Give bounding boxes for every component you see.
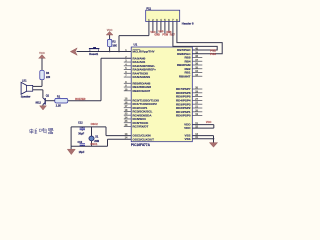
svg-text:Header 8: Header 8 (182, 21, 194, 25)
svg-text:VCC: VCC (107, 28, 113, 32)
svg-text:2.2K: 2.2K (56, 105, 61, 108)
svg-text:RD0/PSP0: RD0/PSP0 (176, 114, 191, 118)
svg-text:VCC: VCC (206, 120, 212, 124)
svg-text:10K: 10K (112, 45, 117, 48)
svg-text:VCC: VCC (39, 51, 45, 55)
svg-text:PGC: PGC (210, 52, 216, 56)
svg-text:PIC16F877A: PIC16F877A (131, 143, 151, 147)
svg-text:9012: 9012 (35, 102, 41, 105)
svg-text:OSC2: OSC2 (91, 122, 99, 126)
svg-text:C12: C12 (78, 121, 83, 124)
svg-text:220: 220 (46, 76, 51, 79)
svg-text:Speaker: Speaker (21, 95, 31, 98)
svg-text:GND: GND (154, 34, 160, 37)
svg-text:RC7/RX/DT: RC7/RX/DT (133, 125, 149, 129)
svg-text:Reset1: Reset1 (89, 52, 98, 56)
svg-text:U1: U1 (134, 42, 138, 46)
svg-text:RB0/INT: RB0/INT (179, 74, 191, 78)
svg-text:P11: P11 (146, 7, 151, 11)
svg-text:OSC1: OSC1 (90, 142, 98, 146)
svg-text:OSC2/CLKOUT: OSC2/CLKOUT (133, 137, 155, 141)
svg-text:30pF: 30pF (78, 132, 84, 135)
svg-text:MCLR/Vpp/THV: MCLR/Vpp/THV (133, 50, 155, 54)
svg-text:VSS: VSS (184, 137, 190, 141)
svg-text:BUZZER: BUZZER (75, 98, 85, 101)
svg-text:RE2/CS/AN7: RE2/CS/AN7 (133, 89, 151, 93)
svg-text:RA5/AN4/SS: RA5/AN4/SS (133, 75, 151, 79)
svg-text:15pF: 15pF (79, 151, 85, 154)
svg-text:LS1: LS1 (22, 80, 27, 83)
svg-text:VDD: VDD (184, 126, 191, 130)
